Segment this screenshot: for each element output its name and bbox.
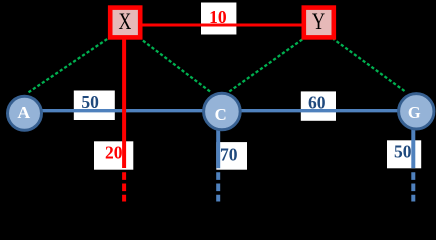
label box 70 <box>216 142 247 170</box>
svg-text:70: 70 <box>220 144 238 164</box>
node Y <box>304 8 334 38</box>
node X <box>110 8 140 38</box>
wire green dashed X-A <box>29 38 109 92</box>
wire red vertical from X solid <box>122 40 126 169</box>
node C <box>204 93 241 130</box>
label box 50 A-C <box>74 91 115 121</box>
svg-text:Y: Y <box>312 9 326 34</box>
label box 60 C-G <box>301 91 336 120</box>
svg-text:A: A <box>17 103 31 122</box>
svg-text:G: G <box>408 103 421 122</box>
wire red X-Y <box>143 24 302 27</box>
svg-text:20: 20 <box>105 143 123 163</box>
wire blue vertical from G dashed <box>411 172 415 201</box>
wire green dashed Y-C <box>229 39 303 92</box>
wire blue A-C <box>42 109 203 112</box>
label box 50 G <box>387 140 421 168</box>
wire green dashed Y-G <box>334 39 405 91</box>
svg-text:C: C <box>215 105 227 124</box>
wire red vertical from X dashed <box>122 172 126 201</box>
label box 10 <box>201 3 236 35</box>
wire blue vertical from C dashed <box>216 172 220 201</box>
svg-text:X: X <box>119 9 132 34</box>
node A <box>8 96 42 130</box>
node G <box>399 94 434 129</box>
wire green dashed X-C <box>142 40 211 92</box>
wire blue vertical from C solid <box>216 130 220 168</box>
wire blue C-G <box>241 109 398 112</box>
svg-text:50: 50 <box>394 142 412 162</box>
wire blue vertical from G solid <box>411 130 415 169</box>
label box 20 <box>94 141 133 169</box>
